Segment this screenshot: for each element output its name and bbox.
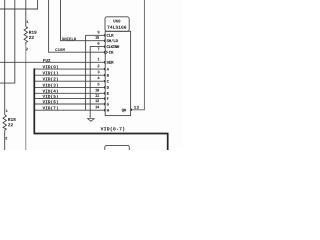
resistor R18 value 22 [8, 123, 13, 126]
wire vertical net cornering to left edge [0, 0, 15, 83]
pin number 6 [98, 42, 100, 45]
node U60 refdes [113, 20, 120, 23]
pin number 2 [98, 65, 100, 68]
pin number 3 [97, 71, 99, 74]
pin name C [107, 80, 109, 83]
pin name G [107, 103, 109, 106]
pin number 14 [95, 106, 99, 109]
wire VID(5) row to pin F [34, 98, 105, 100]
resistor R19 value 22 [29, 36, 34, 39]
pin number 10 [95, 89, 99, 92]
pin name CK [109, 51, 114, 54]
node SHIELD net label [62, 38, 76, 41]
wire vertical net into R18 [4, 0, 6, 115]
IC below: next stage label box partial at bottom edge [105, 145, 130, 155]
IC U60 body box [105, 31, 130, 115]
pin number 11 [95, 94, 99, 97]
pin number 2 of R19 [26, 48, 28, 51]
pin name A [107, 68, 109, 71]
node 74LS166 part number [107, 26, 126, 29]
wire net FUZ to SER pin 1 [0, 61, 105, 63]
wire QH pin 13 net to top edge [131, 0, 145, 110]
ground [88, 119, 95, 122]
pin name SH/LD [106, 39, 117, 42]
pin number 9 [98, 31, 100, 34]
node VID(6) net label [43, 100, 58, 104]
bus VID(0-7) vertical spine [34, 68, 168, 150]
IC U60 clock wedge on CK pin [105, 50, 108, 54]
wire vertical net into R19 [25, 0, 27, 27]
node VID(2) net label [43, 77, 58, 81]
node VID(4) net label [43, 89, 58, 93]
resistor R19 [24, 27, 27, 45]
resistor R18 refdes [8, 118, 16, 121]
pin name CLR [107, 34, 114, 37]
node C16M net label [55, 48, 64, 51]
pin number 12 [95, 99, 99, 102]
wire below R18 to bottom edge [4, 130, 6, 150]
pin name F [107, 97, 109, 100]
node VID(5) net label [43, 95, 58, 99]
pin name B [107, 74, 109, 77]
pin name E [107, 92, 109, 95]
node VID(0) net label [43, 65, 58, 69]
wire VID(7) row to pin H [34, 109, 105, 111]
pin number 15 [95, 36, 99, 39]
pin name CLKINH [107, 45, 120, 48]
pin name D [107, 86, 109, 89]
wire top horizontal net exiting top edge [0, 0, 38, 9]
wire net SHIELD to SH/LD pin 15 [61, 0, 106, 41]
node VID(0-7) bus label [101, 127, 125, 131]
node VID(1) net label [43, 71, 58, 75]
pin number 4 [97, 77, 99, 80]
pin number 1 of R19 [27, 21, 29, 24]
wire VID(3) row to pin D [34, 86, 105, 88]
pin number 1 of R18 [6, 110, 8, 113]
wire VID(2) row to pin C [34, 80, 105, 82]
pin number 13 [134, 106, 139, 109]
wire net C16M to CK pin 7 [49, 0, 106, 52]
pin number 1 [98, 58, 100, 61]
wire VID(0) row to pin A [34, 68, 105, 70]
wire VID(6) row to pin G [34, 103, 105, 105]
pin number 2 of R18 [5, 137, 7, 140]
wire CLR pin 9 net [86, 35, 106, 110]
wire VID(4) row to pin E [34, 92, 105, 94]
resistor R18 [3, 115, 6, 130]
pin name H [107, 109, 109, 112]
wire below R19 to bottom edge faint [25, 45, 27, 150]
wire VID(1) row to pin B [34, 74, 105, 76]
node VID(7) net label [43, 106, 58, 110]
wire CLKINH pin 6 net to ground [90, 47, 105, 118]
node FUZ net label [43, 59, 50, 62]
pin number 5 [98, 83, 100, 86]
bus VID(0-7) horizontal run exiting bottom right [34, 134, 168, 151]
pin ticks at IC left edge and QH pin [104, 34, 131, 111]
node VID(3) net label [43, 83, 58, 87]
pin name SER [106, 61, 113, 64]
pin number 7 [98, 48, 100, 51]
IC U60 74LS166 label box [105, 17, 129, 32]
pin name QH [122, 109, 126, 113]
resistor R19 refdes [29, 31, 36, 34]
